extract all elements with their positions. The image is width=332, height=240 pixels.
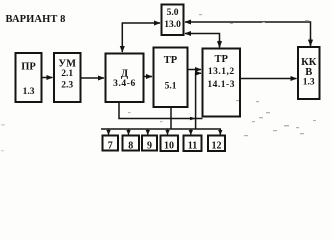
box 10 bbox=[161, 136, 179, 152]
drop to box 8 bbox=[128, 129, 130, 135]
svg-text:1.3: 1.3 bbox=[303, 78, 315, 88]
box 9 bbox=[142, 136, 157, 152]
svg-text:13.0: 13.0 bbox=[164, 20, 181, 30]
wire ТР5.1 bottom down to bus bbox=[170, 107, 172, 129]
wire УМ to Д bbox=[81, 77, 105, 79]
wire vertical between ТР blocks: down to bus, jog-arrow into ТР13 left edge bbox=[196, 73, 201, 129]
svg-text:14.1-3: 14.1-3 bbox=[207, 80, 235, 90]
svg-text:3.4-6: 3.4-6 bbox=[113, 79, 136, 89]
svg-text:ТР: ТР bbox=[214, 54, 228, 65]
svg-text:ПР: ПР bbox=[21, 62, 36, 73]
box 8 bbox=[123, 136, 140, 152]
svg-text:В: В bbox=[305, 67, 312, 78]
scan noise specks bbox=[1, 14, 316, 151]
arrow at junction (right) bbox=[190, 117, 196, 121]
wire ТР 13 to КК bbox=[240, 78, 297, 80]
block ТР 13.1,2 14.1-3 bbox=[203, 49, 241, 117]
wire corner to 5.0/13.0 left (right arrow) bbox=[122, 22, 160, 24]
svg-text:10: 10 bbox=[164, 141, 174, 152]
block 5.0/13.0 bbox=[162, 5, 184, 36]
bus line bbox=[101, 129, 220, 135]
drop to box 10 bbox=[167, 129, 169, 135]
wire lower feedback: ТР13 top up, left into 5.0/13.0 right bottom bbox=[185, 34, 220, 48]
box 12 bbox=[208, 136, 225, 152]
svg-text:Д: Д bbox=[121, 69, 129, 80]
svg-text:5.1: 5.1 bbox=[165, 82, 177, 92]
wire upper feedback: КК top up, left into 5.0/13.0 right bbox=[185, 22, 311, 46]
svg-text:УМ: УМ bbox=[58, 59, 76, 70]
svg-text:7: 7 bbox=[108, 141, 113, 152]
wire ПР to УМ bbox=[42, 77, 53, 79]
svg-text:ВАРИАНТ 8: ВАРИАНТ 8 bbox=[6, 14, 66, 25]
box 11 bbox=[184, 136, 202, 152]
box 7 bbox=[103, 136, 119, 152]
block КК В 1.3 bbox=[298, 47, 320, 99]
block ПР 1.3 bbox=[16, 53, 42, 102]
wire Д to ТР 5.1 bbox=[144, 76, 153, 78]
svg-text:5.0: 5.0 bbox=[167, 8, 179, 18]
drop to box 11 bbox=[190, 129, 192, 135]
block УМ 2.1 2.3 bbox=[54, 53, 81, 102]
drop to box 7 bbox=[108, 129, 110, 135]
svg-text:12: 12 bbox=[212, 141, 222, 152]
svg-text:11: 11 bbox=[188, 141, 197, 152]
svg-text:2.3: 2.3 bbox=[61, 81, 73, 91]
block ТР 5.1 bbox=[154, 48, 188, 108]
svg-text:2.1: 2.1 bbox=[61, 69, 73, 79]
wire Д bottom down, right to junction under ТР13 bbox=[119, 102, 203, 119]
svg-text:8: 8 bbox=[128, 141, 133, 152]
wire ТР 5.1 to ТР 13 bbox=[188, 69, 202, 71]
svg-text:1.3: 1.3 bbox=[23, 87, 35, 97]
svg-text:13.1,2: 13.1,2 bbox=[208, 67, 235, 77]
block Д 3.4-6 bbox=[106, 54, 144, 103]
wire corner to Д top (down arrow) bbox=[121, 23, 123, 52]
drop to box 9 bbox=[147, 129, 149, 135]
svg-text:9: 9 bbox=[147, 141, 152, 152]
svg-text:ТР: ТР bbox=[164, 55, 178, 66]
